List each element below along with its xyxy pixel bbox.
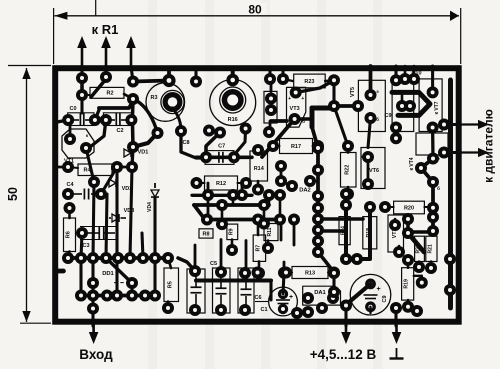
- svg-text:R14: R14: [254, 166, 265, 172]
- svg-text:R17: R17: [291, 144, 301, 150]
- svg-text:R20: R20: [404, 205, 414, 211]
- svg-text:R2: R2: [106, 91, 113, 97]
- svg-text:C7: C7: [218, 144, 225, 150]
- svg-text:R9: R9: [228, 228, 234, 235]
- svg-text:R21: R21: [427, 244, 433, 253]
- svg-text:R13: R13: [305, 270, 315, 276]
- svg-text:+: +: [288, 96, 291, 102]
- svg-text:R8: R8: [202, 231, 209, 237]
- svg-text:C0: C0: [69, 106, 76, 112]
- svg-text:+: +: [301, 96, 304, 102]
- svg-text:R12: R12: [216, 181, 226, 187]
- svg-text:VD4: VD4: [147, 202, 153, 212]
- svg-text:C9: C9: [382, 295, 388, 302]
- svg-text:R5: R5: [167, 281, 173, 288]
- svg-text:б: б: [376, 116, 379, 122]
- svg-text:к VT4: к VT4: [409, 157, 415, 170]
- svg-text:C6: C6: [254, 295, 261, 301]
- svg-text:DA1: DA1: [314, 290, 326, 296]
- svg-text:VD1: VD1: [138, 150, 149, 156]
- svg-text:C8: C8: [182, 140, 189, 146]
- svg-text:C2: C2: [116, 128, 123, 134]
- svg-text:+: +: [376, 286, 380, 293]
- svg-text:VD3: VD3: [124, 208, 135, 214]
- svg-text:R6: R6: [66, 231, 72, 238]
- svg-text:C1: C1: [260, 307, 267, 313]
- svg-text:DD1: DD1: [102, 271, 114, 277]
- svg-text:R3: R3: [150, 95, 157, 101]
- svg-text:C4: C4: [66, 182, 74, 188]
- svg-text:Вход: Вход: [79, 347, 113, 362]
- svg-text:C5: C5: [210, 261, 217, 267]
- svg-text:к R1: к R1: [92, 22, 119, 37]
- svg-text:C9: C9: [384, 113, 391, 119]
- svg-text:R16: R16: [228, 117, 238, 123]
- svg-text:R23: R23: [304, 79, 314, 85]
- svg-text:DA2: DA2: [299, 188, 311, 194]
- svg-text:VT6: VT6: [369, 168, 379, 174]
- svg-text:80: 80: [248, 2, 262, 16]
- svg-text:R22: R22: [344, 165, 350, 175]
- svg-text:+4,5...12 В: +4,5...12 В: [310, 347, 377, 362]
- svg-text:VT5: VT5: [350, 87, 356, 97]
- svg-text:C3: C3: [82, 243, 89, 249]
- svg-text:к VT7: к VT7: [434, 101, 440, 114]
- svg-text:VT3: VT3: [290, 106, 300, 112]
- svg-text:R19: R19: [404, 279, 410, 289]
- svg-text:R11: R11: [267, 227, 273, 236]
- svg-text:+: +: [289, 294, 293, 301]
- svg-text:R7: R7: [255, 245, 261, 252]
- svg-text:к двигателю: к двигателю: [482, 109, 496, 183]
- svg-text:50: 50: [6, 187, 20, 201]
